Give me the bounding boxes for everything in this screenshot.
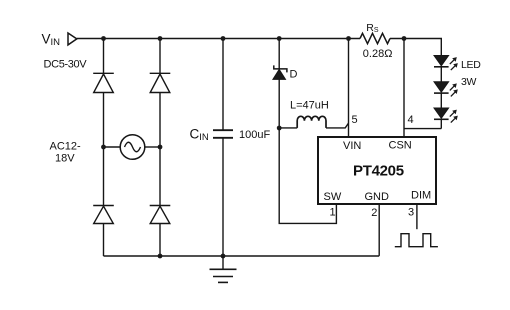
wire bridge left leg lower <box>103 224 105 257</box>
svg-text:0.28Ω: 0.28Ω <box>363 48 393 60</box>
svg-text:CSN: CSN <box>389 140 412 152</box>
node junction dot top rail capacitor <box>221 36 226 41</box>
node junction dot bottom rail capacitor <box>221 254 226 259</box>
diode BR2 (bridge upper-right) <box>150 73 171 92</box>
wire bridge left leg middle <box>103 93 105 206</box>
wire bridge left leg upper <box>103 39 105 74</box>
capacitor C1 plates <box>213 130 233 138</box>
ground symbol <box>210 256 237 282</box>
resistor R1 zigzag body <box>360 33 390 43</box>
svg-text:3: 3 <box>408 207 414 219</box>
wire AC source left lead <box>104 146 121 148</box>
svg-text:RS: RS <box>366 22 379 34</box>
node junction dot top rail left leg <box>101 36 106 41</box>
wire pin 5 VIN line <box>348 39 350 138</box>
node SW junction dot <box>277 126 282 131</box>
wire inductor right lead <box>326 123 349 128</box>
svg-text:3W: 3W <box>461 76 477 88</box>
wire AC source right lead <box>145 146 160 148</box>
capacitor C1 top lead <box>222 39 224 131</box>
node VIN input terminal triangle <box>68 33 77 45</box>
node junction dot AC left <box>101 145 106 150</box>
wire pin 2 GND <box>378 204 380 256</box>
node junction dot bottom rail right leg <box>158 254 163 259</box>
svg-text:PT4205: PT4205 <box>353 163 404 180</box>
LED D1 <box>434 56 458 71</box>
PWM square wave symbol <box>395 234 438 247</box>
wire LED return <box>404 128 441 130</box>
wire top rail left segment <box>77 38 360 40</box>
diode BR1 (bridge upper-left) <box>93 73 114 92</box>
wire bridge right leg lower <box>159 224 161 257</box>
wire top rail right segment <box>390 39 441 56</box>
op-amp U1 PT4205 box <box>318 137 436 204</box>
node junction dot top rail diode D <box>277 36 282 41</box>
wire pin 4 CSN line <box>403 39 405 138</box>
diode D body <box>273 69 286 79</box>
svg-text:DC5-30V: DC5-30V <box>44 59 88 71</box>
svg-text:5: 5 <box>352 114 358 126</box>
wire LED3 bottom <box>440 119 442 128</box>
node junction dot top rail pin4 <box>402 36 407 41</box>
LED D3 <box>434 108 458 123</box>
node junction dot top rail pin5 <box>346 36 351 41</box>
svg-text:D: D <box>290 69 298 81</box>
svg-text:LED: LED <box>461 59 481 71</box>
diode BR4 (bridge lower-right) <box>150 206 171 224</box>
node junction dot AC right <box>158 145 163 150</box>
svg-text:DIM: DIM <box>411 190 431 202</box>
diode D bottom lead <box>278 79 280 128</box>
inductor L1 humps <box>297 116 326 128</box>
wire bridge right leg upper <box>159 39 161 74</box>
diode BR3 (bridge lower-left) <box>93 206 114 224</box>
svg-text:VIN: VIN <box>42 32 61 49</box>
wire LED1-LED2 <box>440 67 442 82</box>
node junction dot top rail right leg <box>158 36 163 41</box>
svg-text:AC12-: AC12- <box>50 141 82 153</box>
wire LED2-LED3 <box>440 93 442 108</box>
source AC1 sine wave <box>125 142 141 152</box>
svg-text:VIN: VIN <box>343 140 361 152</box>
source AC1 circle <box>120 135 145 160</box>
wire bottom ground rail <box>104 255 380 257</box>
capacitor C1 bottom lead <box>222 138 224 256</box>
svg-text:1: 1 <box>330 207 336 219</box>
svg-text:18V: 18V <box>55 153 75 165</box>
wire bridge right leg middle <box>159 93 161 206</box>
svg-text:100uF: 100uF <box>239 129 270 141</box>
LED D2 <box>434 82 458 97</box>
svg-text:L=47uH: L=47uH <box>290 100 329 112</box>
diode D schottky cathode bar <box>274 65 287 72</box>
wire inductor left lead <box>279 127 297 129</box>
svg-text:SW: SW <box>324 191 342 203</box>
diode D top lead <box>278 39 280 69</box>
svg-text:GND: GND <box>365 191 390 203</box>
wire pin 3 DIM <box>416 204 418 229</box>
wire pin 1 SW to node <box>279 128 336 223</box>
svg-text:2: 2 <box>371 207 377 219</box>
svg-text:CIN: CIN <box>190 127 209 144</box>
svg-text:4: 4 <box>408 114 414 126</box>
